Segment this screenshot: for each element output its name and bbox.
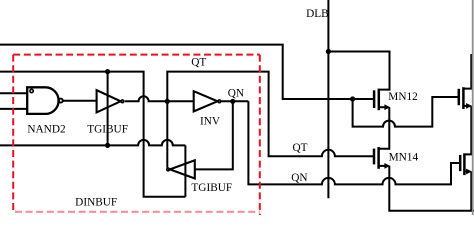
wire MR lower source down: [470, 172, 472, 211]
inverter INV: [194, 91, 221, 111]
svg-text:INV: INV: [200, 115, 221, 127]
wire QN net: [248, 101, 460, 184]
wire QT node with hop: [125, 96, 194, 101]
wire MR upper drain: [464, 54, 471, 89]
DINBUF dashed box bottom: [15, 211, 260, 213]
transistor MN12: [374, 89, 379, 111]
svg-text:MN12: MN12: [388, 91, 418, 103]
transistor MN14: [374, 147, 379, 169]
DINBUF dashed box top: [13, 54, 260, 56]
node ENB junction: [105, 143, 110, 148]
wire MR upper source lead: [464, 105, 469, 107]
wire screen edge gray: [472, 0, 474, 215]
wire MN14 source lead: [379, 165, 387, 167]
node QT junction: [165, 99, 170, 104]
svg-text:TGIBUF: TGIBUF: [87, 123, 128, 135]
wire ENB net: [0, 140, 185, 146]
wire NAND input A: [0, 92, 27, 94]
wire TGIBUF enable: [107, 72, 109, 146]
node EN junction: [105, 69, 110, 74]
svg-text:QN: QN: [291, 172, 307, 184]
transistor MR lower right: [460, 153, 464, 175]
gate NAND2: [27, 87, 63, 114]
svg-text:TGIBUF: TGIBUF: [191, 182, 232, 194]
wire MR upper source to lower drain: [465, 106, 471, 154]
transistor MR upper right: [459, 87, 464, 109]
wire QT net: [167, 72, 373, 157]
wire MR lower source lead: [465, 171, 469, 173]
wire EN net: [0, 72, 185, 197]
svg-text:QN: QN: [228, 88, 244, 100]
node MN12 gate junction: [350, 96, 355, 101]
wire gate branch to right transistor: [353, 97, 459, 127]
svg-text:QT: QT: [191, 57, 206, 69]
svg-text:DLB: DLB: [306, 8, 329, 20]
wire feedback out to QT node: [166, 101, 168, 167]
svg-text:DINBUF: DINBUF: [75, 197, 117, 209]
node DLB junction: [326, 49, 331, 54]
wire DL top: [0, 45, 374, 99]
wire MN12 source to MN14 drain: [379, 107, 389, 149]
wire MN12 source lead: [380, 106, 387, 108]
svg-text:QT: QT: [292, 142, 307, 154]
DINBUF dashed box left: [12, 55, 14, 212]
wire NAND input B: [0, 108, 27, 110]
svg-text:NAND2: NAND2: [27, 123, 66, 135]
wire MN14 source down and bottom rail: [389, 166, 474, 211]
node QN junction: [230, 99, 235, 104]
svg-text:MN14: MN14: [389, 152, 419, 164]
wire INV out QN: [222, 100, 249, 102]
wire QN to feedback input: [195, 101, 233, 169]
wire DLB: [327, 0, 329, 198]
wire feedback enable: [184, 145, 186, 196]
buffer TGIBUF feedback: [167, 160, 195, 178]
buffer TGIBUF forward: [97, 90, 124, 112]
DINBUF dashed box right: [259, 55, 261, 215]
wire NAND out to TGIBUF: [64, 100, 97, 102]
wire DLB to MN12 drain: [328, 52, 389, 90]
